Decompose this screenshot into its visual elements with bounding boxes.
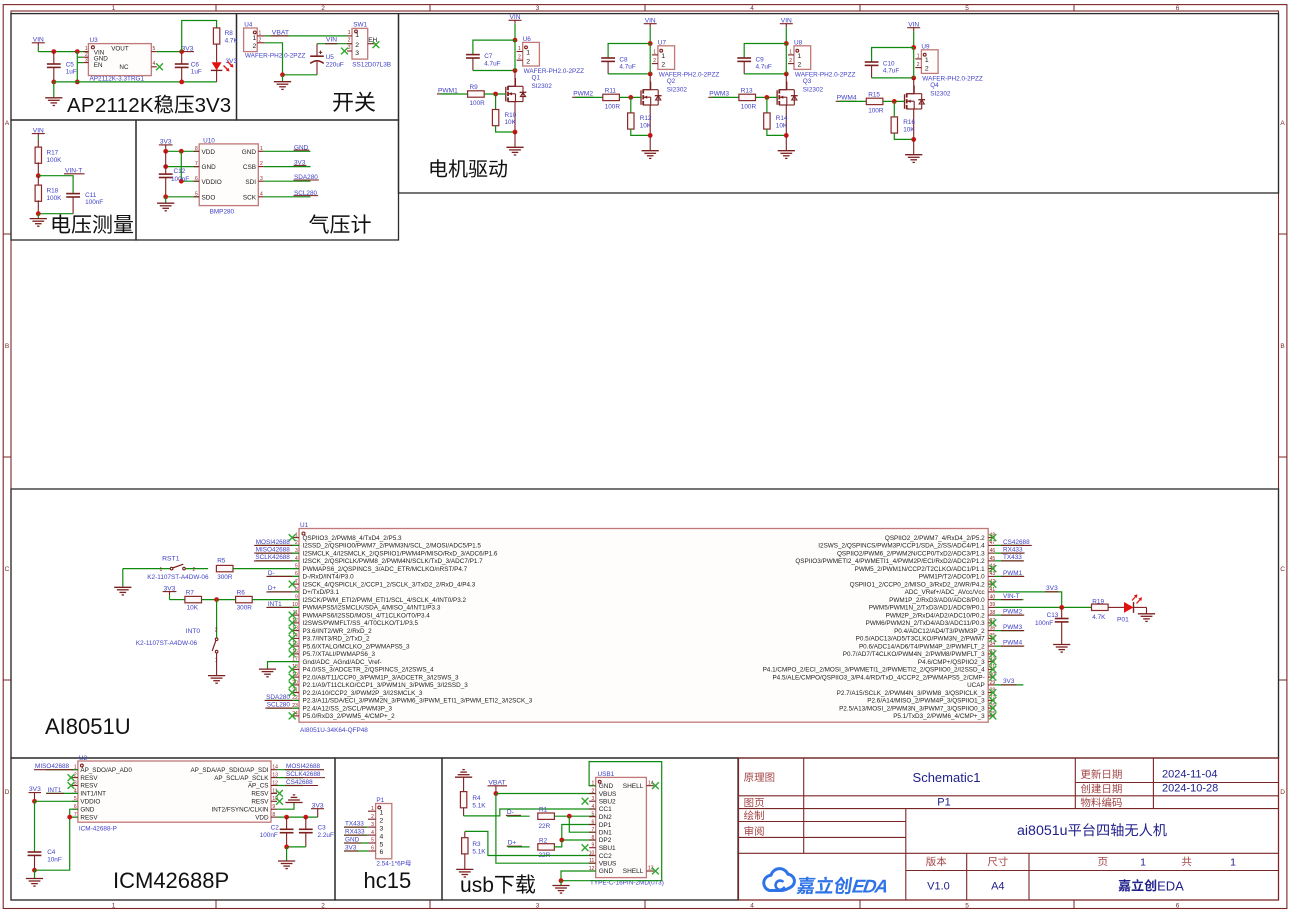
connector U9 body xyxy=(921,50,938,74)
svg-text:GND: GND xyxy=(242,149,257,156)
label Q1 xyxy=(532,75,541,82)
svg-text:1uF: 1uF xyxy=(191,69,202,76)
junction node 3V3 icm xyxy=(32,799,37,804)
label TYPE-C-16PIN-2MD(073) xyxy=(590,879,664,886)
USB1 left pins xyxy=(589,781,617,876)
wire to U3 pin3 EN xyxy=(77,62,83,64)
logo 嘉立创EDA cloud xyxy=(764,869,795,891)
capacitor C7 xyxy=(466,55,480,71)
svg-text:7: 7 xyxy=(592,827,595,833)
wire VBAT to VBUS11 xyxy=(496,794,596,864)
svg-text:SDA280: SDA280 xyxy=(266,694,290,701)
svg-text:R7: R7 xyxy=(186,590,195,597)
svg-text:R19: R19 xyxy=(1092,598,1104,605)
connector U6 body xyxy=(523,42,540,66)
title value ai8051u平台四轴无人机 xyxy=(1017,823,1167,839)
svg-text:6: 6 xyxy=(380,849,384,856)
U8 pin 1 xyxy=(788,49,794,55)
svg-text:P0.6/ADC14/AD6/T4/PWM4P_2/PWMF: P0.6/ADC14/AD6/T4/PWM4P_2/PWMFLT_2 xyxy=(859,643,985,650)
SW1 pin 2 xyxy=(347,38,352,44)
svg-text:QSPIIO3/PWMETI2_4/PWMETI1_4/PW: QSPIIO3/PWMETI2_4/PWMETI1_4/PWM2P/ECI/Rx… xyxy=(795,558,985,565)
label RST1 xyxy=(162,555,180,562)
svg-text:11: 11 xyxy=(589,858,594,864)
label C9 xyxy=(756,56,772,70)
svg-text:100nF: 100nF xyxy=(260,832,278,839)
svg-text:hc15: hc15 xyxy=(364,868,412,893)
svg-text:2.54-1*6P: 2.54-1*6P xyxy=(376,861,405,868)
capacitor C4 xyxy=(28,852,42,870)
label C13 xyxy=(1035,612,1059,627)
junction node VIN C9 xyxy=(784,41,789,46)
no-connect X SBU2 xyxy=(582,798,589,805)
svg-text:INT0: INT0 xyxy=(186,628,201,635)
svg-text:2: 2 xyxy=(74,773,77,779)
label SI2302 Q4 xyxy=(930,90,951,97)
svg-text:VBUS: VBUS xyxy=(599,791,617,798)
label C2 xyxy=(260,825,280,840)
svg-text:SHELL: SHELL xyxy=(623,783,644,790)
svg-text:USB1: USB1 xyxy=(598,771,615,778)
label U1 xyxy=(300,522,309,529)
ground GND3 xyxy=(30,219,47,227)
no-connect X SHELL14 xyxy=(652,782,659,789)
ground GND1 xyxy=(45,98,62,106)
svg-text:C: C xyxy=(5,566,10,573)
wire C7 to drain xyxy=(473,70,515,72)
title block table xyxy=(739,758,1279,900)
svg-text:RST1: RST1 xyxy=(162,555,180,562)
wire DN2 to DN1 xyxy=(569,816,595,832)
wire U5 to gnd rail xyxy=(283,74,318,76)
svg-text:R11: R11 xyxy=(605,88,617,95)
ground GND Q2 xyxy=(642,151,659,159)
svg-text:10: 10 xyxy=(589,850,595,856)
section title AP2112K稳压3V3 xyxy=(67,94,231,117)
svg-text:P4.5/ALE/CMPO/QSPIIO3_3/P4.4/R: P4.5/ALE/CMPO/QSPIIO3_3/P4.4/RD/TxD_4/CC… xyxy=(772,674,984,681)
wire VIN to C7 xyxy=(473,40,515,55)
wire C9 to drain xyxy=(744,73,786,75)
svg-text:TX433: TX433 xyxy=(1003,554,1022,561)
wire U2 pin9 to gnd xyxy=(277,803,294,809)
svg-text:P01: P01 xyxy=(1117,616,1129,623)
title label 共 xyxy=(1182,857,1192,867)
svg-text:I2SCK_2/QSPICLK/PWM8_2/PWM4N/S: I2SCK_2/QSPICLK/PWM8_2/PWM4N/SCLK/TxD_3/… xyxy=(303,558,484,565)
svg-text:ICM42688P: ICM42688P xyxy=(113,868,229,893)
svg-text:2: 2 xyxy=(260,161,263,167)
svg-text:VDDIO: VDDIO xyxy=(202,179,222,186)
USB1 SHELL pin 14 xyxy=(623,780,654,790)
junction node DP2 xyxy=(559,838,564,843)
svg-text:VIN-T: VIN-T xyxy=(1003,593,1020,600)
svg-text:1: 1 xyxy=(653,49,656,55)
U3 pin 4 NC xyxy=(119,61,156,71)
svg-text:C7: C7 xyxy=(484,53,493,60)
wire R1 to DN2 xyxy=(554,815,595,817)
label U7 xyxy=(658,39,667,46)
transistor Q4 SI2302 xyxy=(905,85,926,109)
label R4 xyxy=(472,795,486,809)
U4 pin names xyxy=(253,35,257,50)
wire C2 C3 bottoms xyxy=(287,846,306,848)
svg-text:100R: 100R xyxy=(605,103,621,110)
label WAFER-PH2.0-2PZZ U8 xyxy=(795,72,856,79)
svg-text:Q3: Q3 xyxy=(803,78,812,85)
svg-text:9: 9 xyxy=(272,804,275,810)
svg-text:K2-1107ST-A4DW-06: K2-1107ST-A4DW-06 xyxy=(136,640,198,647)
svg-text:1: 1 xyxy=(160,567,163,573)
USB1 SHELL pin 13 xyxy=(623,866,654,876)
svg-text:1: 1 xyxy=(526,50,530,57)
svg-text:C5: C5 xyxy=(66,61,75,68)
title value P1 xyxy=(937,796,950,808)
svg-text:5: 5 xyxy=(965,902,969,909)
resistor R1 xyxy=(538,813,555,819)
svg-text:100R: 100R xyxy=(470,100,486,107)
label WAFER-PH2.0-2PZZ U7 xyxy=(659,72,720,79)
svg-text:100K: 100K xyxy=(47,195,63,202)
junction node gate Q2 xyxy=(628,95,633,100)
svg-text:3: 3 xyxy=(85,57,88,63)
U10 left pins xyxy=(194,146,222,202)
label C3 xyxy=(318,825,334,840)
ground GND Q3 xyxy=(778,151,795,159)
svg-text:U2: U2 xyxy=(79,755,88,762)
wire 3V3 to R8 top route xyxy=(182,21,217,52)
svg-text:PWM2P_2/RxD4/AD2/ADC10/P0.2: PWM2P_2/RxD4/AD2/ADC10/P0.2 xyxy=(886,612,986,619)
wire VIN node to connector xyxy=(649,44,651,74)
svg-text:CC1: CC1 xyxy=(599,806,612,813)
U1 right pin names xyxy=(763,535,986,720)
wire EN branch vertical xyxy=(76,52,78,82)
SW1 pin names xyxy=(355,32,359,57)
wire R2 to DP2 node xyxy=(554,840,561,847)
label R11 xyxy=(605,88,621,111)
svg-text:R2: R2 xyxy=(539,837,548,844)
svg-text:2: 2 xyxy=(789,58,792,64)
U4 pin 1 xyxy=(257,30,265,36)
svg-text:P2.7/A15/SCLK_2/PWM4N_3/PWM8_3: P2.7/A15/SCLK_2/PWM4N_3/PWM8_3/QSPICLK_3 xyxy=(837,690,986,697)
net flag PWM1 xyxy=(437,87,458,94)
svg-text:PWM3: PWM3 xyxy=(709,91,729,98)
transistor Q3 SI2302 xyxy=(777,81,798,105)
wire source to gnd Q3 xyxy=(785,135,787,150)
label C5 xyxy=(66,61,77,75)
wire 3V3 to U2 VDDIO xyxy=(35,800,78,802)
svg-text:3V3: 3V3 xyxy=(345,844,357,851)
svg-text:PWM1P_2/RxD3/AD0/ADC8/P0.0: PWM1P_2/RxD3/AD0/ADC8/P0.0 xyxy=(889,597,985,604)
wire VIN node to connector xyxy=(514,40,516,70)
svg-text:2: 2 xyxy=(321,5,325,12)
wire C11 to R18 bottom xyxy=(38,213,73,215)
label SI2302 Q1 xyxy=(532,83,553,90)
svg-text:A: A xyxy=(1280,120,1285,127)
junction node gate Q3 xyxy=(765,95,770,100)
wire U4 pin2 to gnd xyxy=(265,43,283,75)
wire R5 to U1 pin5 xyxy=(233,568,299,570)
wire VIN to C8 xyxy=(608,44,650,59)
svg-text:100K: 100K xyxy=(47,157,63,164)
svg-text:D+/TxD/P3.1: D+/TxD/P3.1 xyxy=(303,589,340,596)
wire gnd stem vmeas xyxy=(37,214,39,219)
svg-text:R13: R13 xyxy=(741,88,753,95)
wire drain rail Q1 xyxy=(514,71,516,87)
U1 left pin stubs xyxy=(292,533,299,717)
svg-text:C4: C4 xyxy=(47,849,56,856)
svg-text:10K: 10K xyxy=(505,119,517,126)
svg-text:SI2302: SI2302 xyxy=(532,83,553,90)
net VBAT wire xyxy=(265,35,347,37)
svg-text:2: 2 xyxy=(321,902,325,909)
svg-text:PWM5_2/PWM1N/CCP2/T2CLKO/ADC1/: PWM5_2/PWM1N/CCP2/T2CLKO/ADC1/P1.1 xyxy=(855,566,986,573)
svg-text:AP2112K: AP2112K xyxy=(67,94,154,117)
svg-text:22R: 22R xyxy=(539,823,551,830)
svg-text:1: 1 xyxy=(1140,856,1146,868)
net flag VBAT xyxy=(271,29,289,36)
label U10 xyxy=(203,138,215,145)
ground GND U2 pin9 flipped xyxy=(285,795,302,803)
label R5 xyxy=(217,558,233,582)
net flag INT1 U2 xyxy=(46,787,78,794)
svg-text:R15: R15 xyxy=(868,92,880,99)
net flag INT1 U1 xyxy=(266,601,299,608)
block border motor xyxy=(399,14,1279,193)
capacitor C12 xyxy=(159,151,173,197)
junction node vddio xyxy=(179,179,184,184)
wire C8 to drain xyxy=(608,73,650,75)
svg-text:AP_SDA/AP_SDIO/AP_SDI: AP_SDA/AP_SDIO/AP_SDI xyxy=(190,767,268,774)
svg-text:2: 2 xyxy=(259,37,262,43)
svg-text:K2-1107ST-A4DW-06: K2-1107ST-A4DW-06 xyxy=(147,574,209,581)
svg-text:C: C xyxy=(1280,566,1285,573)
svg-text:CC2: CC2 xyxy=(599,853,612,860)
block border switch xyxy=(237,14,399,120)
net flag VIN xyxy=(32,37,45,52)
section title ICM42688P xyxy=(113,868,229,893)
net flag D- U1 xyxy=(266,570,299,577)
svg-text:PWM1: PWM1 xyxy=(438,87,458,94)
ground rail AP2112K xyxy=(54,81,217,83)
svg-text:Q4: Q4 xyxy=(930,82,939,89)
svg-text:1: 1 xyxy=(295,533,298,539)
svg-text:2.2uF: 2.2uF xyxy=(318,832,334,839)
svg-text:DP1: DP1 xyxy=(599,822,612,829)
IC U1 body xyxy=(299,529,988,723)
label R14 xyxy=(776,115,788,129)
svg-text:R4: R4 xyxy=(472,795,481,802)
junction node VIN-EN branch xyxy=(75,49,80,54)
junction node C5 bottom xyxy=(51,80,56,85)
label ICM-42688-P xyxy=(79,825,117,832)
wire R6 to U1 pin9 xyxy=(252,599,299,601)
resistor R6 xyxy=(236,596,253,602)
label K2-1107ST-A4DW-06 INT0 xyxy=(136,640,198,647)
wire D+ to R2 xyxy=(508,846,530,848)
wire gate to R12 xyxy=(630,97,632,113)
U9 pin names xyxy=(925,57,929,73)
svg-text:VOUT: VOUT xyxy=(111,45,129,52)
svg-text:5.1K: 5.1K xyxy=(472,802,486,809)
junction node bmp 3v3 b xyxy=(179,149,184,154)
svg-text:100nF: 100nF xyxy=(85,199,103,206)
svg-text:P5.0/RxD3_2/PWM5_4/CMP+_2: P5.0/RxD3_2/PWM5_4/CMP+_2 xyxy=(303,713,396,720)
label U6 xyxy=(523,36,532,43)
block border AI8051U xyxy=(11,489,1279,758)
label U2 xyxy=(79,755,88,762)
wire DP1 branch xyxy=(562,825,596,841)
title value 嘉立创EDA bottom xyxy=(1118,878,1184,893)
svg-text:C12: C12 xyxy=(174,168,186,175)
svg-text:SBU2: SBU2 xyxy=(599,799,616,806)
svg-text:4.7K: 4.7K xyxy=(1092,614,1106,621)
svg-text:P0.7/AD7/T4CLKO/PWM4N_2/PWM8/P: P0.7/AD7/T4CLKO/PWM4N_2/PWM8/PWMFLT_3 xyxy=(843,651,985,658)
wire VIN to C9 xyxy=(744,44,786,59)
svg-text:C6: C6 xyxy=(191,61,200,68)
resistor R8 xyxy=(213,28,219,44)
svg-text:GND: GND xyxy=(599,868,614,875)
net flag MOSI42688 U2 xyxy=(277,763,324,770)
IC U3 body xyxy=(88,44,151,76)
svg-text:1: 1 xyxy=(518,46,521,52)
svg-text:Schematic1: Schematic1 xyxy=(913,770,981,785)
svg-text:2: 2 xyxy=(526,58,530,65)
svg-text:U1: U1 xyxy=(300,522,309,529)
label AP2112K-3.3TRG1 xyxy=(90,75,145,82)
label U3 xyxy=(90,37,99,44)
net flag D+ xyxy=(507,840,522,847)
svg-text:CS42688: CS42688 xyxy=(1003,539,1030,546)
wire C2 gnd stem xyxy=(286,847,288,861)
svg-text:EDA: EDA xyxy=(1157,878,1184,893)
net flag 3V3 at LED1 xyxy=(225,58,237,65)
svg-text:C3: C3 xyxy=(318,825,327,832)
svg-text:4.7uF: 4.7uF xyxy=(756,64,772,71)
net flag VIN motor PWM3 xyxy=(780,18,793,44)
svg-text:U7: U7 xyxy=(658,39,667,46)
label 2.54-1*6P xyxy=(376,860,411,867)
label SS12D07L3B xyxy=(352,61,391,68)
svg-text:3: 3 xyxy=(355,50,359,57)
junction node INT0 xyxy=(214,597,219,602)
svg-text:VDD: VDD xyxy=(202,149,216,156)
svg-text:SCL280: SCL280 xyxy=(267,702,291,709)
wire source Q2 down xyxy=(649,105,651,135)
svg-text:RX433: RX433 xyxy=(345,829,365,836)
svg-text:2: 2 xyxy=(925,66,929,73)
svg-text:RESV: RESV xyxy=(80,814,98,821)
wire R10 to source rail xyxy=(496,126,515,132)
svg-text:AP_CS: AP_CS xyxy=(248,783,269,790)
wire VIN node to connector xyxy=(785,44,787,74)
svg-text:1: 1 xyxy=(798,53,802,60)
ground GND C4 xyxy=(26,879,43,887)
wire source Q3 down xyxy=(785,105,787,135)
net flag MISO42688 U2 xyxy=(34,763,78,770)
svg-text:3V3: 3V3 xyxy=(225,58,237,65)
svg-text:4.7uF: 4.7uF xyxy=(619,64,635,71)
svg-text:4.7uF: 4.7uF xyxy=(484,60,500,67)
svg-text:DP2: DP2 xyxy=(599,837,612,844)
svg-text:R8: R8 xyxy=(225,30,234,37)
svg-text:V1.0: V1.0 xyxy=(927,881,950,893)
svg-text:QSPIIO1_2/CCP0_2/MISO_3/RxD2_2: QSPIIO1_2/CCP0_2/MISO_3/RxD2_2/WR/P4.2 xyxy=(850,581,986,588)
switch SW1 body xyxy=(352,28,368,59)
wire source Q1 down xyxy=(514,102,516,132)
net flag RX433 U1 xyxy=(995,547,1025,554)
U7 pin 2 xyxy=(652,58,658,64)
switch RST1 xyxy=(160,564,196,573)
net flag PWM3 U1 xyxy=(995,624,1025,631)
svg-text:4: 4 xyxy=(371,830,374,836)
svg-text:4: 4 xyxy=(260,191,263,197)
svg-text:P4.0/SS_3/ADCETR_2/QSPINCS_2/I: P4.0/SS_3/ADCETR_2/QSPINCS_2/I2SWS_4 xyxy=(303,667,435,674)
ground GND usb xyxy=(552,886,569,894)
label C7 xyxy=(484,53,500,67)
label C12 xyxy=(171,168,189,183)
svg-text:R10: R10 xyxy=(505,112,517,119)
capacitor C5 xyxy=(47,52,61,82)
svg-text:100R: 100R xyxy=(868,107,884,114)
net flag D- xyxy=(506,809,521,816)
wire R12 to source rail xyxy=(631,129,650,135)
svg-text:D: D xyxy=(5,789,10,796)
wire INT0 switch to gnd xyxy=(216,653,218,675)
svg-text:1: 1 xyxy=(253,35,257,42)
label R6 xyxy=(237,590,253,612)
svg-text:C13: C13 xyxy=(1047,612,1059,619)
IC U10 body xyxy=(199,144,258,206)
no-connect X SW1 pin3 xyxy=(341,48,348,55)
label K2-1107ST-A4DW-06 RST1 xyxy=(147,574,209,581)
svg-text:P2.6/A14/MISO_2/PWM4P_3/QSPIIO: P2.6/A14/MISO_2/PWM4P_3/QSPIIO1_3 xyxy=(867,698,985,705)
svg-text:PWM2: PWM2 xyxy=(573,91,593,98)
svg-text:R5: R5 xyxy=(217,558,226,565)
svg-text:3: 3 xyxy=(536,5,540,12)
wire R13 to gate xyxy=(756,96,778,98)
svg-text:RX433: RX433 xyxy=(1003,547,1023,554)
net flag PWM4 xyxy=(836,95,857,102)
junction node C2 xyxy=(284,815,289,820)
svg-text:PWM5/PWM1N_2/TxD3/AD1/ADC9/P0.: PWM5/PWM1N_2/TxD3/AD1/ADC9/P0.1 xyxy=(869,605,985,612)
label WAFER-PH2.0-2PZZ U9 xyxy=(922,76,983,83)
title label 物料编码 xyxy=(1081,797,1122,807)
net flag SDA280 U1 xyxy=(265,694,299,701)
svg-text:PWM2: PWM2 xyxy=(1003,609,1023,616)
svg-text:GND: GND xyxy=(80,806,94,813)
svg-text:SI2302: SI2302 xyxy=(803,86,824,93)
svg-text:U4: U4 xyxy=(244,22,253,29)
P1 pins xyxy=(368,806,384,856)
svg-text:3: 3 xyxy=(74,780,77,786)
net flag TX433 U1 xyxy=(995,554,1024,561)
svg-text:3: 3 xyxy=(371,822,374,828)
label U9 xyxy=(921,43,930,50)
svg-text:B: B xyxy=(1280,343,1284,350)
svg-text:6: 6 xyxy=(1176,5,1180,12)
wire gnd stem switch xyxy=(282,75,284,82)
wire R19 to P01 xyxy=(1108,606,1124,608)
wire RST1 rail xyxy=(123,568,170,570)
ground GND INT0 xyxy=(208,676,225,684)
SW1 pin 1 xyxy=(347,30,352,36)
svg-text:SBU1: SBU1 xyxy=(599,845,616,852)
title label 绘制 xyxy=(744,810,764,820)
U6 pin names xyxy=(526,50,530,66)
label Q3 xyxy=(803,78,812,85)
svg-text:5: 5 xyxy=(380,841,384,848)
ground GND Q4 xyxy=(905,155,922,163)
wire C4 to gnd xyxy=(34,870,36,878)
title value total 1 xyxy=(1230,856,1236,868)
